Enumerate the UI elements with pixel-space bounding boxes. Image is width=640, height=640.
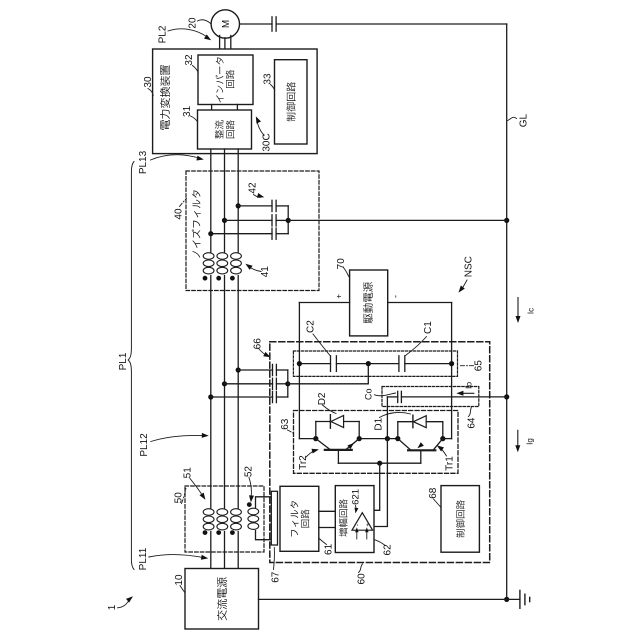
diode D2 left stub — [315, 422, 317, 439]
svg-text:D2: D2 — [317, 392, 328, 405]
polarity dot coil 52 — [247, 502, 252, 507]
capacitor: stray capacitance between motor and ground — [271, 17, 273, 31]
inductor 51 phase1 coil — [203, 509, 214, 516]
svg-text:64: 64 — [466, 417, 477, 429]
svg-text:PL11: PL11 — [138, 547, 149, 570]
dash-dot leader from 50 to box 50 — [182, 489, 186, 504]
leader from 68 to box 68 — [434, 499, 442, 508]
text 交流電源 in box 10 — [217, 577, 227, 620]
node GL junction dot (AC source ground) — [504, 597, 509, 602]
node bus right dot (-V) — [449, 361, 454, 366]
wire: right vertical -V to rail — [451, 303, 453, 439]
box 65 capacitor block (dashed) — [293, 351, 457, 376]
wire: phase3 to capacitor 66a — [238, 369, 272, 371]
leader from Co to capacitor — [375, 393, 396, 396]
svg-text:32: 32 — [184, 54, 195, 66]
text 制御回路 in box 68 — [456, 500, 465, 537]
wire: rail segment left (+V to Tr2 collector) — [299, 438, 315, 440]
polarity dot inductor 51 phase2 — [216, 530, 221, 535]
leader arrow from PL12 to power line — [151, 435, 205, 441]
wire: base line to amplifier output — [374, 463, 380, 510]
tilde leader from 64 to box 64 — [468, 408, 471, 417]
leader from 61 to box 61 — [319, 539, 326, 545]
arrow Io (output current) — [460, 392, 474, 394]
pickup coil 52 top wire — [256, 497, 272, 508]
arrow Ig (ground current) — [517, 430, 519, 449]
wire: ground line GL vertical (right side) — [506, 24, 508, 599]
svg-text:40: 40 — [174, 208, 185, 220]
svg-text:1: 1 — [107, 604, 118, 610]
ground symbol — [519, 590, 521, 608]
svg-text:PL13: PL13 — [138, 150, 149, 174]
leader arrow from PL2 to motor wires — [168, 29, 207, 37]
box 10 AC power supply — [185, 569, 259, 630]
svg-text:33: 33 — [262, 73, 273, 85]
box 40 noise filter (dashed) — [186, 171, 319, 291]
wire: power line phase 2 (upper section) — [224, 149, 226, 252]
text 電力変換装置 in box 30 — [160, 65, 170, 130]
svg-text:Tr2: Tr2 — [298, 455, 309, 470]
inductor 51 phase3 coil — [231, 509, 242, 516]
pickup coil 52 — [248, 508, 259, 515]
arrow from 51 to coil — [190, 479, 203, 496]
wire: power line phase 3 (upper section) — [237, 149, 239, 252]
text インバータ回路 in box 32 — [215, 57, 223, 102]
svg-text:66: 66 — [252, 338, 263, 350]
leader from 30 to box — [148, 89, 153, 96]
brace for PL1 group — [128, 162, 134, 570]
wires: 3-phase lines motor to inverter — [219, 36, 221, 56]
svg-text:20: 20 — [188, 17, 199, 29]
box 63 transistor block (dashed) — [294, 411, 459, 474]
wire: phase2 to capacitor 42b — [225, 219, 273, 221]
wire: + terminal of 70 to C2 bus — [299, 302, 349, 304]
svg-text:30: 30 — [143, 76, 154, 88]
wire: capacitor 66 join line — [287, 370, 289, 397]
arrow from 52 to pickup coil — [249, 478, 251, 498]
inductor 51 phase2 coil — [217, 509, 228, 516]
diode D1 triangle — [413, 416, 426, 428]
svg-text:67: 67 — [270, 571, 281, 583]
wire: capacitor 66c to join line — [276, 396, 287, 398]
transistor Tr1 base bar — [408, 449, 435, 451]
capacitor 42b — [271, 215, 273, 226]
capacitor Co — [397, 391, 399, 402]
diode D1 wire to rail — [426, 421, 443, 423]
box 33 control circuit of power converter — [275, 60, 308, 144]
svg-text:51: 51 — [183, 467, 194, 479]
svg-text:68: 68 — [428, 487, 439, 499]
node junction dot on 66 join line — [285, 381, 290, 386]
box 30 power conversion device outline — [153, 49, 318, 154]
arrow from 1 to system — [118, 601, 130, 608]
svg-text:621: 621 — [350, 489, 361, 505]
svg-text:70: 70 — [336, 258, 347, 270]
leader from D1 to diode — [380, 412, 411, 417]
dash-dot leader from 63 to box 63 — [287, 430, 293, 433]
svg-text:31: 31 — [182, 105, 193, 117]
svg-text:Tr1: Tr1 — [445, 456, 456, 471]
polarity dot inductor 51 phase3 — [230, 530, 235, 535]
arrow from 30C to converter interior — [257, 120, 264, 136]
box 50 noise filter (dashed) — [185, 486, 264, 552]
svg-text:D1: D1 — [374, 417, 385, 430]
diode D1 wire to cathode — [398, 421, 413, 423]
transistor Tr2 collector diagonal — [316, 439, 331, 450]
arrow from 41 to coil — [250, 267, 262, 272]
wire: phase3 to capacitor 42a — [238, 205, 272, 207]
wire: capacitor 66b to join line — [276, 383, 287, 385]
leader from C2 to capacitor — [313, 334, 330, 356]
wire: power line phase 2 (middle section) — [224, 276, 226, 509]
diode D1 right stub — [442, 422, 444, 439]
wire: filter to amplifier lower — [319, 527, 336, 529]
diode D2 wire to rail — [344, 421, 360, 423]
polarity dot inductor 41 phase1 — [203, 276, 208, 281]
wire: capacitors 66 to midpoint node — [288, 364, 369, 384]
inductor 41 phase2 coil — [217, 253, 228, 260]
svg-text:M: M — [221, 20, 232, 28]
transistor Tr2 emitter diagonal with arrow — [346, 439, 360, 450]
arrow from NSC to box 60 — [461, 280, 467, 290]
arrow from 621 to op-amp — [355, 506, 358, 511]
node junction dot phase2 to capacitor 42b — [222, 218, 227, 223]
capacitor 42c — [271, 228, 273, 239]
leader from 31 to box 31 — [191, 116, 198, 122]
wire: emitter feedback to amplifier — [374, 439, 387, 527]
op-amp 621 triangle — [352, 513, 373, 531]
svg-text:60: 60 — [357, 573, 368, 585]
leader from 62 to box 62 — [375, 540, 385, 545]
diode D1 cathode bar — [412, 415, 414, 428]
diode D2 wire to cathode — [316, 421, 331, 423]
wire: phase2 to capacitor 66b — [225, 383, 273, 385]
text ノイズフィルタ in box 40 — [192, 190, 201, 257]
node bus midpoint dot — [366, 361, 371, 366]
wire: capacitor 42b to join line — [276, 219, 288, 221]
wires: DC bus between inverter and rectifier — [211, 105, 213, 111]
node Tr1 emitter dot — [395, 436, 400, 441]
polarity dot inductor 41 phase3 — [230, 276, 235, 281]
svg-text:+: + — [335, 294, 344, 299]
capacitor 66a — [272, 364, 274, 375]
node Tr2 collector dot — [313, 436, 318, 441]
svg-text:-: - — [390, 295, 400, 298]
wire: base line between Tr2 and Tr1 — [338, 462, 420, 464]
polarity dot inductor 41 phase2 — [216, 276, 221, 281]
box 31 rectifier circuit — [198, 110, 252, 149]
wire: bus segment right of C1 — [405, 363, 452, 365]
leader from 67 to plate — [273, 548, 276, 570]
text フィルタ回路 in box 61 — [290, 501, 298, 536]
arrow Ic (leakage current via stray cap) — [517, 298, 519, 320]
leader from 32 to box 32 — [193, 66, 199, 73]
svg-text:62: 62 — [382, 544, 393, 556]
svg-text:C2: C2 — [306, 320, 317, 333]
wire: rail segment right (Tr1 collector to -V) — [443, 438, 452, 440]
text 増幅回路 in box 62 — [339, 499, 348, 536]
box 68 control circuit of NSC — [441, 486, 479, 553]
text 制御回路 in box 33 — [286, 82, 295, 121]
wire: to capacitor Co — [387, 396, 397, 398]
svg-text:Ic: Ic — [526, 308, 535, 314]
op-amp input arrow 1 — [356, 530, 358, 539]
leader from 33 to box 33 — [271, 85, 275, 91]
arrow from 66 to capacitors — [259, 349, 268, 356]
capacitor 66b — [272, 378, 274, 389]
wire: phase1 to capacitor 66c — [211, 396, 273, 398]
capacitor 42a — [271, 200, 273, 211]
svg-text:Ig: Ig — [525, 438, 534, 445]
wire: power line phase 1 (upper section) — [210, 149, 212, 252]
arrow from Tr2 to transistor — [306, 451, 315, 458]
polarity dot inductor 51 phase1 — [203, 530, 208, 535]
svg-text:52: 52 — [243, 466, 254, 478]
capacitor C1 — [398, 356, 400, 372]
inductor 41 phase1 coil — [203, 253, 214, 260]
svg-text:PL12: PL12 — [139, 433, 150, 457]
wire: power line phase 1 (middle section) — [210, 276, 212, 509]
pickup coil 52 bottom wire — [256, 531, 272, 540]
leader for GL label — [508, 117, 517, 120]
text 整流回路 in box 31 — [215, 120, 224, 138]
svg-text:63: 63 — [280, 418, 291, 430]
svg-text:41: 41 — [260, 266, 271, 278]
leader from 70 to box 70 — [344, 268, 349, 277]
leader from D2 to diode — [323, 405, 337, 414]
inductor 41 phase3 coil — [231, 253, 242, 260]
wire: AC source to ground — [259, 598, 520, 600]
connector plate 67 — [271, 491, 277, 545]
leader arrow from PL13 to power line — [151, 155, 201, 160]
capacitor 66c — [272, 391, 274, 402]
box 61 filter circuit — [280, 486, 319, 551]
node junction dot phase1 to capacitor 66c — [208, 394, 213, 399]
wire: rail segment emitters (Tr2 to Tr1) — [359, 438, 398, 440]
box 62 amplifier circuit — [335, 486, 374, 553]
svg-text:61: 61 — [324, 543, 335, 555]
wire: left vertical +V to rail — [298, 303, 300, 439]
wire: motor to stray capacitor to GL (top) — [239, 23, 272, 25]
transistor Tr2 base bar — [325, 449, 352, 451]
node bus left dot (+V) — [297, 361, 302, 366]
wire: capacitors 42 to ground line GL — [288, 219, 507, 221]
svg-text:+: + — [365, 523, 372, 527]
transistor Tr2 base tap — [337, 450, 339, 463]
leader from 20 to motor — [198, 20, 211, 24]
leader from 10 to box 10 — [180, 586, 185, 593]
node junction dot phase1 to capacitor 42c — [208, 231, 213, 236]
wire: power line phase 2 (lower section) — [224, 532, 226, 569]
wire: filter to amplifier upper — [319, 510, 336, 512]
svg-text:GL: GL — [518, 113, 529, 127]
box 60 noise suppression circuit (dashed) — [270, 342, 490, 563]
motor M (20) — [211, 10, 239, 38]
svg-text:C1: C1 — [423, 321, 434, 334]
capacitor C2 — [330, 356, 332, 372]
node Tr1 collector dot — [440, 436, 445, 441]
node base line dot — [377, 461, 382, 466]
node junction dot phase2 to capacitor 66b — [222, 381, 227, 386]
node GL junction dot (noise filter 42 output) — [504, 218, 509, 223]
diode D2 right stub — [358, 422, 360, 439]
arrow from Tr1 to transistor — [441, 448, 447, 456]
tilde leader from 60 to box 60 — [359, 564, 363, 573]
transistor Tr1 emitter diagonal with arrow — [398, 439, 411, 451]
svg-text:Co: Co — [364, 389, 374, 401]
svg-text:PL2: PL2 — [158, 25, 169, 43]
wire: capacitor 42a to join line — [276, 205, 288, 207]
wire: power line phase 1 (lower section) — [210, 532, 212, 569]
svg-text:NSC: NSC — [464, 256, 475, 277]
leader arrow from PL11 to power line — [149, 555, 205, 558]
box 70 drive power supply — [350, 270, 388, 336]
wire: capacitor 42c to join line — [276, 233, 288, 235]
wire: Co to ground line GL — [401, 396, 506, 398]
leader from C1 to capacitor — [406, 337, 427, 356]
wire: power line phase 3 (middle section) — [237, 276, 239, 509]
diode D1 left stub — [397, 422, 399, 439]
node junction dot phase3 to capacitor 42a — [236, 203, 241, 208]
node junction dot on join line — [286, 218, 291, 223]
transistor Tr1 base tap — [420, 450, 422, 463]
diode D2 cathode bar — [329, 415, 331, 429]
wire: capacitor 42 join line — [287, 206, 289, 234]
text 駆動電源 in box 70 — [363, 282, 373, 323]
wire: - terminal of 70 to C1 bus — [388, 302, 452, 304]
op-amp input arrow 2 — [366, 530, 368, 539]
svg-text:30C: 30C — [262, 133, 273, 151]
box 64 output current sense (dashed) — [382, 387, 479, 407]
node Tr2 emitter dot — [357, 436, 362, 441]
svg-text:10: 10 — [174, 574, 185, 586]
box 32 inverter circuit — [198, 55, 253, 105]
wire: emitter node up to Co — [386, 397, 388, 439]
wire: power line phase 3 (lower section) — [237, 532, 239, 569]
svg-text:42: 42 — [248, 182, 259, 194]
svg-text:65: 65 — [474, 360, 485, 372]
wire: bus segment C2 to C1 — [336, 363, 399, 365]
diode D2 triangle — [331, 416, 344, 428]
svg-text:-: - — [354, 524, 361, 526]
wire: phase1 to capacitor 42c — [211, 233, 272, 235]
node junction dot phase3 to capacitor 66a — [236, 367, 241, 372]
wire: capacitor 66a to join line — [276, 369, 287, 371]
svg-text:PL1: PL1 — [118, 352, 129, 370]
dash-dot leader from 40 to box 40 — [180, 198, 187, 206]
transistor Tr1 collector diagonal — [433, 439, 443, 451]
arrow from 42 to capacitor — [254, 195, 261, 198]
node GL junction dot (Co output) — [504, 394, 509, 399]
node emitter output dot (to Co) — [385, 436, 390, 441]
dash-dot leader from 65 to box 65 — [459, 365, 474, 367]
wire: bus segment left of C2 — [299, 363, 330, 365]
svg-text:Io: Io — [464, 382, 474, 389]
